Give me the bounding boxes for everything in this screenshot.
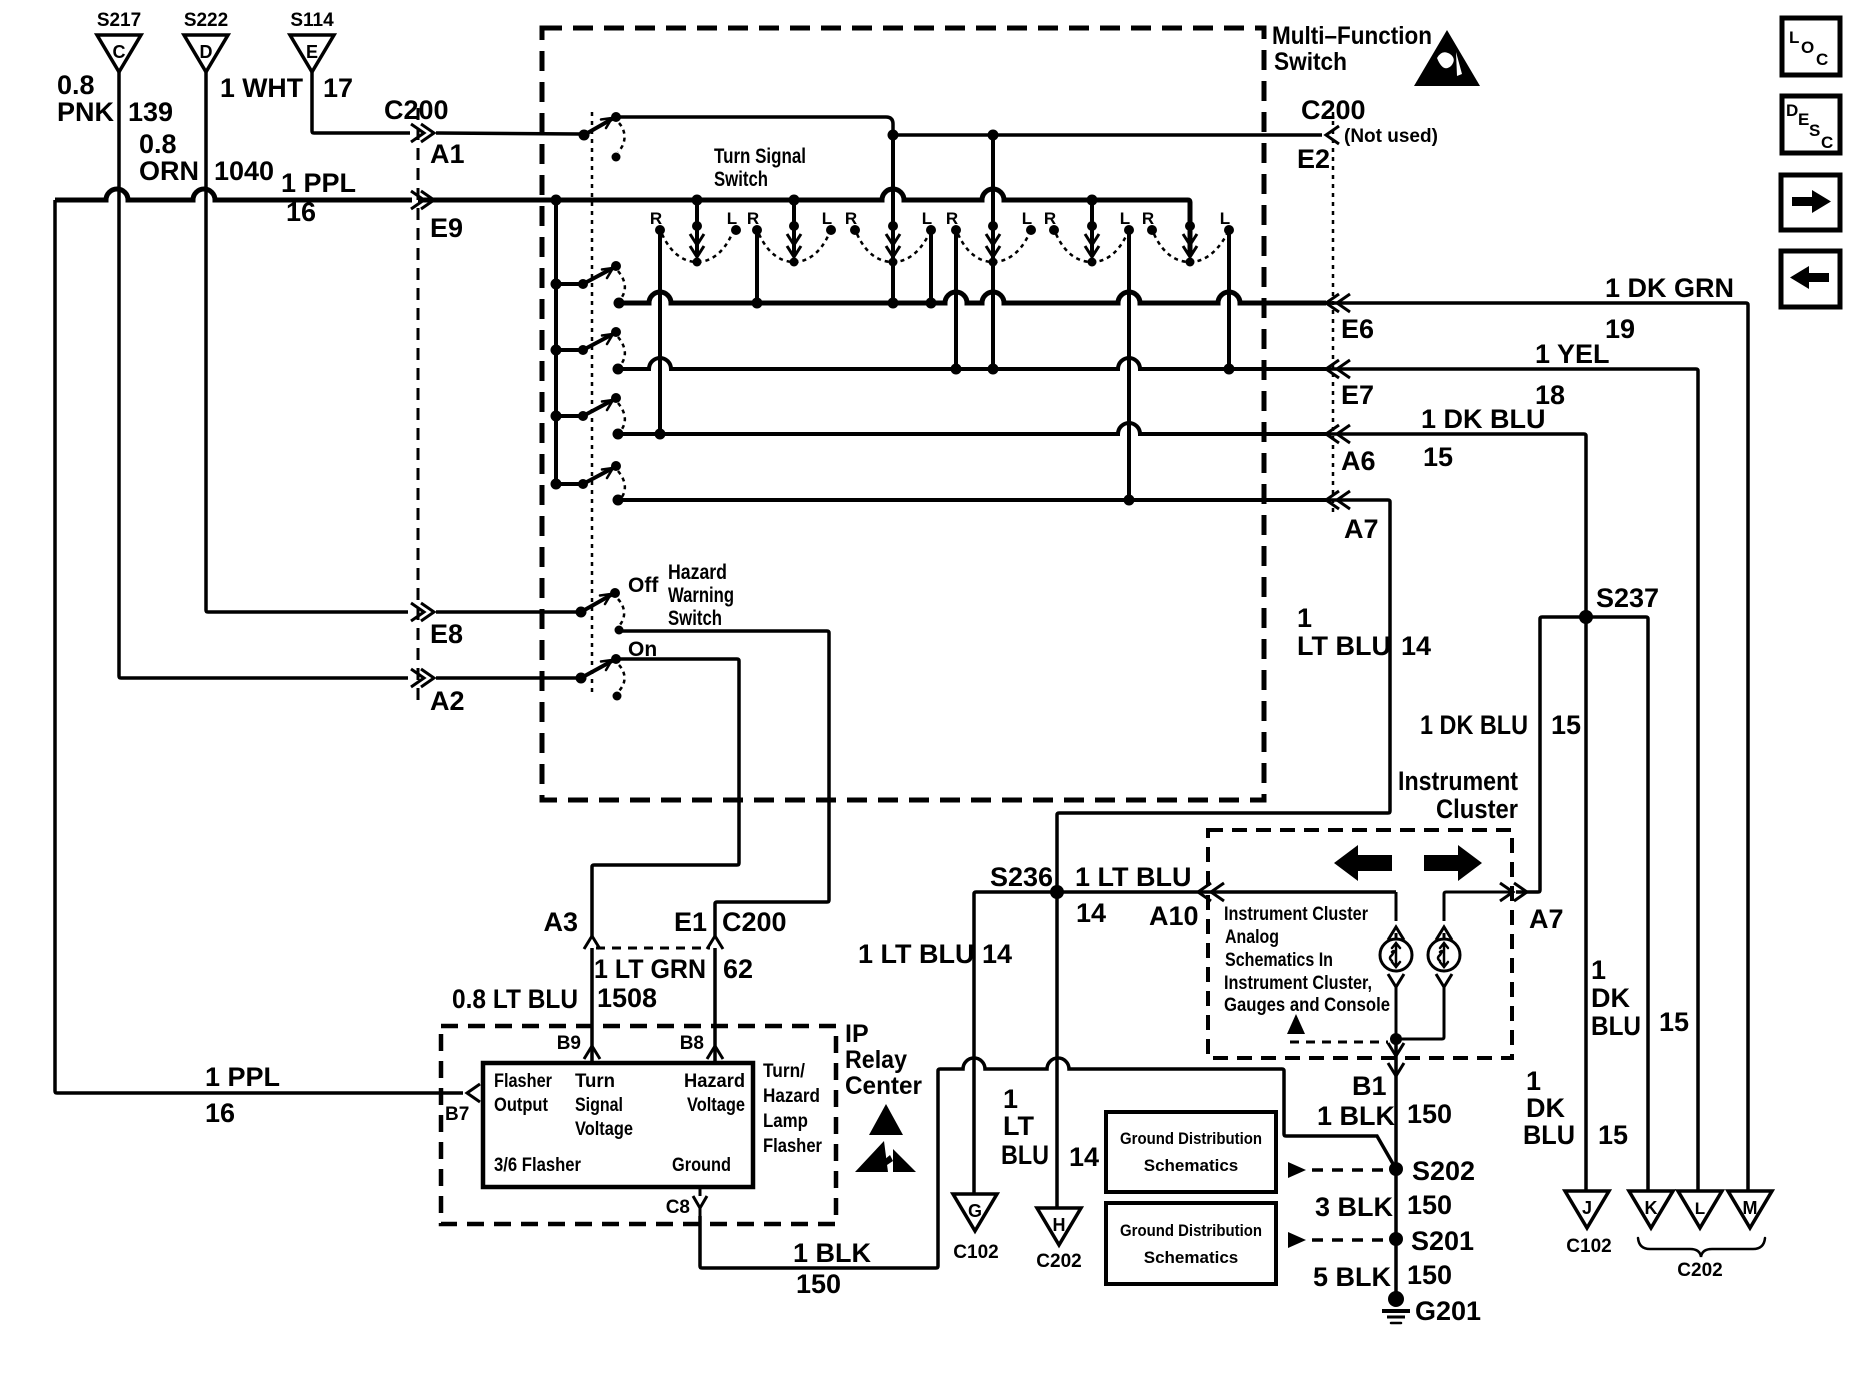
svg-text:Schematics In: Schematics In [1225,950,1333,971]
svg-text:1: 1 [1526,1066,1541,1096]
svg-text:Hazard: Hazard [668,561,727,584]
label Instrument Cluster [1398,766,1518,824]
wire B1 out of cluster [1394,1040,1398,1169]
svg-text:Schematics: Schematics [1144,1156,1239,1175]
hazard switch Off arm [576,574,660,635]
ESD warning triangle (multi-function) [1414,30,1480,86]
svg-text:Signal: Signal [575,1095,623,1116]
svg-text:Ground: Ground [672,1155,731,1176]
svg-text:Instrument: Instrument [1398,766,1518,796]
svg-text:Cluster: Cluster [1436,794,1518,824]
wiper arc pair 2 [759,234,829,262]
wire ground C8 to S202 [700,1058,1396,1268]
wire 1 PPL left vertical down to B7 [55,200,463,1093]
feeder wiper 3 from A1 line down to E6 [886,135,900,309]
wire S236 down to H [1055,892,1059,1208]
legend box left arrow [1781,251,1840,307]
Ground Distribution Schematics box 1 [1106,1112,1276,1192]
wire E8 into hazard switch [436,610,578,614]
label 1 LT BLU 14 (G wire) [858,939,1012,969]
connector C200 left dashed line [417,108,420,700]
connector C200 A2 [411,669,465,716]
svg-text:C200: C200 [722,907,787,937]
connector C200 E8 [411,603,463,649]
svg-text:DK: DK [1526,1093,1565,1123]
svg-text:BLU: BLU [1591,1011,1641,1041]
feeder wiper 5 [1085,195,1099,267]
svg-text:A10: A10 [1149,901,1199,931]
svg-text:E2: E2 [1297,144,1330,174]
svg-text:Instrument Cluster: Instrument Cluster [1224,904,1369,925]
svg-text:Voltage: Voltage [687,1095,745,1116]
label IP Relay Center [845,1020,922,1100]
svg-text:B1: B1 [1352,1071,1387,1101]
label 0.8 PNK 139 [57,70,173,127]
ESD warning triangle (IP relay) [855,1104,916,1172]
connector triangle H (C202) [1036,1208,1081,1272]
label 1 BLK 150 (B1) [1317,1099,1452,1131]
connector A3 [543,907,600,949]
connector E1 [674,907,787,949]
connector into lamp 2 [1436,927,1452,940]
hazard switch On arm [576,638,658,701]
svg-text:0.8: 0.8 [57,70,95,100]
switch arm pole 4 [551,461,625,501]
connector C200 A7 [1326,491,1379,544]
wire contact L3 down to E6 [926,230,937,309]
label 1 DK GRN 19 [1605,273,1734,344]
node S236 [990,862,1064,899]
label 0.8 ORN 1040 [139,129,274,186]
svg-text:C8: C8 [666,1197,690,1218]
svg-text:Instrument Cluster,: Instrument Cluster, [1224,973,1372,994]
connector B8 [680,1033,723,1059]
bus A7 [613,495,1327,506]
wire 1 PPL horizontal to E9 with hops over C and D drops [55,189,412,200]
svg-text:1: 1 [1003,1084,1018,1114]
wire from S217 C down to A2 [119,72,408,678]
label 1 WHT 17 [220,73,353,103]
svg-text:Schematics: Schematics [1144,1248,1239,1267]
svg-text:M: M [1743,1198,1758,1218]
svg-text:Off: Off [628,574,659,597]
IP Relay Center dashed box [441,1026,836,1224]
connector B9 [557,1033,600,1059]
connector B1 [1352,1063,1404,1101]
feeder wiper 1 [690,195,704,267]
svg-text:A1: A1 [430,139,465,169]
wire A2 into hazard switch [436,676,578,680]
legend box DESC [1782,96,1840,153]
svg-text:150: 150 [1407,1190,1452,1220]
svg-text:17: 17 [323,73,353,103]
svg-text:15: 15 [1423,442,1453,472]
svg-text:Flasher: Flasher [763,1136,823,1157]
wire contact L6 down to E7 [1224,230,1235,375]
label 1 YEL 18 [1535,339,1610,410]
svg-text:A7: A7 [1344,514,1379,544]
wire contact L5 down to A7 [1124,230,1135,506]
svg-text:1 LT GRN: 1 LT GRN [594,954,706,984]
ground symbol G201 [1382,1291,1481,1326]
svg-text:15: 15 [1551,710,1581,740]
svg-text:Voltage: Voltage [575,1119,633,1140]
svg-text:3 BLK: 3 BLK [1315,1192,1394,1222]
svg-text:E9: E9 [430,213,463,243]
svg-text:1 BLK: 1 BLK [1317,1101,1396,1131]
svg-text:O: O [1801,38,1814,57]
label 0.8 LT BLU [452,984,578,1014]
wire arms vertical [554,200,558,484]
svg-text:0.8: 0.8 [139,129,177,159]
svg-text:1 DK GRN: 1 DK GRN [1605,273,1734,303]
wire A7 output down and across to S236 [1057,500,1390,892]
label 1 LT BLU 14 (A7 wire) [1297,603,1431,661]
dashed pointer to S202 [1288,1162,1386,1178]
svg-text:Hazard: Hazard [763,1086,820,1107]
svg-text:3/6 Flasher: 3/6 Flasher [494,1155,582,1176]
wire E9 bus into switch with hops at F3 F4 and corner down to F6 [418,189,1190,256]
svg-text:Switch: Switch [714,168,768,191]
svg-text:1 PPL: 1 PPL [281,168,356,198]
svg-text:1 YEL: 1 YEL [1535,339,1610,369]
svg-text:Turn Signal: Turn Signal [714,145,806,168]
label 1 PPL 16 (top) [281,168,356,227]
label 1 PPL 16 (bottom) [205,1062,280,1128]
legend box right arrow [1781,175,1840,230]
svg-text:S222: S222 [184,10,228,31]
connector below lamp 2 [1436,974,1452,987]
label Hazard Warning Switch [668,561,734,630]
svg-text:C202: C202 [1036,1251,1081,1272]
svg-text:Center: Center [845,1072,922,1100]
switch arm pole 1 [551,261,625,301]
svg-text:Turn/: Turn/ [763,1061,806,1082]
connector triangle D (S222) [184,10,228,72]
node S202 [1389,1156,1475,1186]
svg-text:S237: S237 [1596,583,1659,613]
wire 1 DK BLU from A6 down to J through S237 [1322,434,1586,1191]
svg-text:1: 1 [1297,603,1312,633]
label 1 DK BLU 15 (S237 to A7) [1420,710,1581,740]
wire S236 right to A10 [1057,890,1396,894]
svg-text:1 PPL: 1 PPL [205,1062,280,1092]
svg-text:E: E [306,42,318,62]
label 5 BLK 150 [1313,1260,1452,1292]
svg-text:Hazard: Hazard [684,1071,745,1092]
connector C200 A6 [1326,425,1376,476]
svg-text:0.8 LT BLU: 0.8 LT BLU [452,984,578,1014]
svg-text:IP: IP [845,1020,869,1048]
wiper arc pair 6 [1154,234,1227,262]
turn lamp 1 [1380,939,1412,971]
svg-text:S202: S202 [1412,1156,1475,1186]
svg-text:14: 14 [1076,898,1106,928]
label 3 BLK 150 [1315,1190,1452,1222]
svg-text:Switch: Switch [1274,48,1347,76]
svg-text:5 BLK: 5 BLK [1313,1262,1392,1292]
bus A6 with hop [613,423,1327,440]
wire lamp 2 down and left to junction [1396,987,1444,1039]
junction of lamp wires [1390,1033,1402,1045]
brace C202 under K L M [1638,1238,1765,1281]
bus E7 with hops [613,358,1327,375]
connector into lamp 1 [1388,927,1404,940]
wire S237 branch left down to instrument cluster A7 [1516,617,1586,892]
svg-text:Relay: Relay [845,1046,907,1074]
flasher module box [483,1063,753,1187]
svg-text:16: 16 [205,1098,235,1128]
note text Instrument Cluster Analog Schematics [1224,904,1390,1016]
svg-text:Analog: Analog [1225,927,1279,948]
label 1 LT BLU 14 (S236 to A10) [1075,862,1192,928]
wire S236 left branch down to G [974,892,1057,1194]
connector C200 A3 E1 dashed line [596,947,710,950]
svg-text:D: D [200,42,213,62]
note dashed leader [1290,1041,1388,1044]
right turn indicator arrow [1424,845,1482,881]
svg-text:E6: E6 [1341,314,1374,344]
svg-text:C: C [1816,50,1828,69]
svg-text:B8: B8 [680,1033,704,1054]
dashed pointer to S201 [1288,1232,1386,1248]
svg-text:C: C [113,42,126,62]
svg-text:62: 62 [723,954,753,984]
wiper arc pair 1 [662,234,732,262]
label Turn/Hazard Lamp Flasher [763,1061,823,1157]
wiper arc pair 5 [1056,234,1127,262]
svg-text:E8: E8 [430,619,463,649]
svg-text:1508: 1508 [597,983,657,1013]
junction E9 at arms drop [551,195,562,206]
wire S237 branch right down to K [1586,617,1648,1191]
svg-text:S201: S201 [1411,1226,1474,1256]
connector C8 [666,1187,707,1218]
svg-text:ORN: ORN [139,156,199,186]
connector B7 [445,1084,480,1125]
bus E6 with hops [614,292,1327,309]
svg-text:14: 14 [1401,631,1431,661]
wire lamp 1 down to junction [1395,987,1398,1062]
svg-text:C200: C200 [384,95,449,125]
svg-text:Ground Distribution: Ground Distribution [1120,1129,1262,1148]
connector C200 E7 [1326,360,1374,410]
label 1 BLK 150 (C8 ground) [793,1238,872,1299]
svg-text:S217: S217 [97,10,141,31]
inner dotted connector line left (C200 inside) [591,112,594,692]
wire hazard Off output to E1 [619,631,829,936]
Multi-Function Switch dashed box [542,28,1264,800]
label 1 DK BLU 15 (K wire) [1591,955,1689,1041]
svg-text:Multi–Function: Multi–Function [1272,22,1432,50]
wire 1 YEL from E7 down to L [1322,369,1698,1191]
Ground Distribution Schematics box 2 [1106,1203,1276,1284]
svg-text:Output: Output [494,1095,549,1116]
connector C200 A1 [384,95,465,169]
connector triangle M [1728,1191,1772,1228]
svg-text:1: 1 [1591,955,1606,985]
wire contact R1 down to A6 [655,230,666,440]
wire S201 to G201 [1394,1239,1398,1294]
connector triangle L [1678,1191,1722,1228]
svg-text:150: 150 [796,1269,841,1299]
wire 1 DK GRN from E6 down to M [1322,303,1748,1191]
feeder wiper 6 [1183,221,1197,267]
svg-text:G201: G201 [1415,1296,1481,1326]
wiper arc pair 4 [958,234,1029,262]
svg-text:Gauges and Console: Gauges and Console [1224,995,1390,1016]
connector below lamp 1 [1388,974,1404,987]
svg-text:15: 15 [1659,1007,1689,1037]
svg-text:(Not used): (Not used) [1344,126,1438,147]
wire A1 contact feed line to E2 [616,117,1322,135]
svg-text:Flasher: Flasher [494,1071,553,1092]
wire A10 to lamp 1 [1395,892,1398,921]
svg-text:PNK: PNK [57,97,115,127]
svg-text:139: 139 [128,97,173,127]
wire E1 down to B8 [713,948,717,1063]
connector triangle J (C102) [1565,1191,1612,1257]
arrow crossing cluster bottom [1388,1043,1404,1056]
feeder wiper 2 [787,195,801,267]
svg-text:14: 14 [982,939,1012,969]
svg-text:1 BLK: 1 BLK [793,1238,872,1268]
connector A10 [1149,883,1224,931]
svg-text:Ground Distribution: Ground Distribution [1120,1221,1262,1240]
wire contact R2 down to E6 [752,230,763,309]
connector triangle K [1629,1191,1673,1228]
svg-text:H: H [1053,1215,1066,1235]
svg-text:LT: LT [1003,1111,1034,1141]
label Turn Signal Switch [714,145,806,191]
svg-text:DK: DK [1591,983,1630,1013]
turn lamp 2 [1428,939,1460,971]
svg-text:S: S [1809,121,1820,140]
svg-text:A3: A3 [543,907,578,937]
turn signal contact row labels and dots [650,209,1234,235]
svg-text:E: E [1798,110,1809,129]
label 1 DK BLU 15 (J wire) [1523,1066,1628,1150]
svg-text:Lamp: Lamp [763,1111,808,1132]
junction on A1 line at F4 [988,130,999,141]
note pointer triangle [1287,1014,1305,1034]
node S201 [1389,1226,1474,1256]
wire A7 to lamp 2 [1444,892,1512,921]
wire from S114 E down to A1 [312,72,410,133]
svg-text:E7: E7 [1341,380,1374,410]
wire A3 down to B9 [590,948,594,1063]
svg-text:Warning: Warning [668,584,734,607]
svg-text:150: 150 [1407,1099,1452,1129]
svg-text:1040: 1040 [214,156,274,186]
svg-text:1 LT BLU: 1 LT BLU [858,939,975,969]
left turn indicator arrow [1334,845,1392,881]
svg-text:A6: A6 [1341,446,1376,476]
svg-text:150: 150 [1407,1260,1452,1290]
svg-text:B9: B9 [557,1033,581,1054]
svg-text:C202: C202 [1677,1260,1722,1281]
svg-text:Switch: Switch [668,607,722,630]
flasher module labels [494,1071,745,1176]
legend box LOC [1782,18,1840,75]
svg-text:B7: B7 [445,1104,469,1125]
label 1 LT GRN 1508 [594,954,753,1013]
switch arm pole 2 [551,327,625,367]
svg-text:C102: C102 [1566,1236,1611,1257]
svg-text:C: C [1821,133,1833,152]
svg-text:1 DK BLU: 1 DK BLU [1420,710,1528,740]
label Multi-Function Switch [1272,22,1432,76]
connector C200 E2 (Not used) [1297,95,1438,174]
switch arm pole 3 [551,393,625,433]
svg-text:BLU: BLU [1001,1140,1049,1170]
svg-text:LT BLU: LT BLU [1297,631,1391,661]
connector A7 (instrument cluster) [1500,883,1564,934]
svg-text:G: G [968,1201,982,1221]
svg-text:1 LT BLU: 1 LT BLU [1075,862,1192,892]
connector triangle E (S114) [290,10,334,72]
svg-text:A7: A7 [1529,904,1564,934]
junction on A1 line at F3 [888,130,899,141]
wire from S222 D down to E8 [206,72,408,612]
wire contact R4 down to E7 [951,230,962,375]
connector triangle C (S217) [97,10,141,72]
wire S202 to S201 [1394,1169,1398,1239]
svg-text:14: 14 [1069,1142,1099,1172]
svg-text:L: L [1695,1199,1705,1218]
label 1 DK BLU 15 (A6) [1421,404,1546,472]
svg-text:L: L [1789,28,1799,47]
svg-text:1 WHT: 1 WHT [220,73,303,103]
svg-text:S236: S236 [990,862,1053,892]
wire hazard On output to A3 [592,659,739,936]
wiper arc pair 3 [857,234,929,262]
connector C200 E6 [1326,294,1374,344]
svg-text:D: D [1786,101,1798,120]
connector triangle G (C102) [953,1194,999,1263]
svg-text:K: K [1645,1198,1658,1218]
svg-text:15: 15 [1598,1120,1628,1150]
Instrument Cluster dashed box [1208,830,1512,1058]
svg-text:A2: A2 [430,686,465,716]
svg-text:1 DK BLU: 1 DK BLU [1421,404,1546,434]
svg-text:C200: C200 [1301,95,1366,125]
svg-text:C102: C102 [953,1242,998,1263]
label 1 LT BLU 14 (H wire) [1001,1084,1099,1172]
svg-text:S114: S114 [290,10,334,31]
wire A1 into switch [436,133,580,134]
switch arm A1 (top) [579,112,625,162]
svg-text:Turn: Turn [575,1071,615,1092]
feeder wiper 4 from A1 line down to E7 [986,135,1000,375]
svg-text:BLU: BLU [1523,1120,1575,1150]
node S237 [1579,583,1659,624]
svg-text:E1: E1 [674,907,707,937]
inner dotted connector line right (C200 inside) [1332,112,1335,516]
connector C200 E9 [411,191,463,243]
svg-text:J: J [1582,1198,1592,1218]
